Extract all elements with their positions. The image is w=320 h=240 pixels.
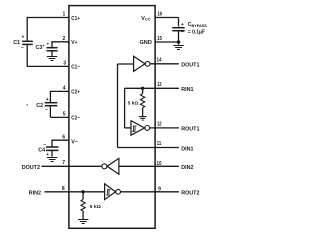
resistor R1 bottom lead [142, 108, 144, 116]
wire pin16 VCC [155, 17, 178, 19]
svg-text:4: 4 [63, 86, 66, 92]
svg-text:DIN2: DIN2 [181, 165, 193, 171]
wire C4 bottom lead [51, 150, 53, 156]
svg-text:9: 9 [158, 186, 161, 192]
capacitor C2 [45, 103, 58, 106]
resistor R1 5k lead [142, 88, 144, 93]
IC body U1 [69, 6, 155, 229]
svg-text:5 kΩ: 5 kΩ [90, 204, 101, 210]
node RIN2 junction [81, 190, 84, 193]
svg-text:+: + [46, 42, 49, 47]
ground R2 [78, 220, 88, 224]
wire pin5 C2- [50, 116, 69, 118]
wire CBYPASS bottom lead [178, 31, 180, 45]
svg-text:GND: GND [139, 40, 151, 46]
svg-text:+: + [22, 35, 25, 41]
resistor R1 5k zigzag [141, 94, 145, 108]
wire ROUT2 row [121, 191, 179, 193]
capacitor CBYPASS [172, 28, 184, 31]
svg-text:−: − [181, 30, 184, 36]
svg-text:= 0.1µF: = 0.1µF [188, 29, 205, 35]
wire ROUT1 out [150, 127, 179, 129]
svg-text:5 kΩ: 5 kΩ [128, 101, 139, 107]
svg-text:8: 8 [62, 186, 65, 192]
svg-text:−: − [21, 45, 24, 51]
svg-text:14: 14 [157, 58, 162, 64]
svg-text:12: 12 [157, 122, 162, 128]
svg-text:−: − [45, 107, 48, 113]
ground C3 [47, 57, 57, 61]
wire pin4 C2+ [50, 90, 69, 92]
svg-text:C2−: C2− [71, 116, 80, 122]
svg-text:7: 7 [62, 160, 65, 166]
svg-text:V−: V− [71, 140, 78, 146]
wire DOUT1 out [150, 63, 179, 65]
svg-text:CBYPASS: CBYPASS [188, 22, 208, 28]
svg-text:RIN1: RIN1 [181, 87, 193, 93]
capacitor C3 [47, 48, 58, 51]
wire pin6 V- [52, 139, 69, 141]
wire DIN1 row [118, 147, 179, 149]
wire DIN1 riser [117, 64, 119, 148]
svg-text:ROUT2: ROUT2 [181, 191, 199, 197]
wire RIN1 row [125, 87, 179, 89]
wire RIN1 branch riser [124, 88, 126, 128]
wire C1 top lead [26, 17, 28, 41]
svg-text:+: + [46, 97, 49, 103]
svg-text:13: 13 [157, 82, 162, 88]
svg-text:DIN1: DIN1 [181, 146, 193, 152]
svg-text:ROUT1: ROUT1 [181, 127, 199, 133]
svg-text:−: − [43, 142, 46, 148]
wire pin2 V+ [52, 41, 69, 43]
bubble U2B output [116, 189, 121, 194]
ground C4 [47, 158, 57, 162]
wire C3 top lead [51, 41, 53, 47]
svg-text:V+: V+ [71, 40, 78, 46]
svg-text:16: 16 [157, 11, 162, 17]
wire C4 top lead [51, 140, 53, 147]
svg-text:+: + [46, 152, 49, 158]
wire CBYPASS top lead [178, 18, 180, 27]
capacitor C4 [46, 147, 59, 150]
inverter U1A DIN1->DOUT1 [134, 56, 145, 71]
node RIN1 junction [141, 87, 144, 90]
svg-text:15: 15 [157, 36, 162, 42]
wire C2 top lead [49, 91, 51, 103]
svg-text:10: 10 [157, 161, 162, 167]
bubble U2A output [102, 164, 107, 169]
svg-text:2: 2 [63, 36, 66, 42]
svg-text:1: 1 [63, 12, 66, 18]
svg-text:C3: C3 [35, 45, 42, 51]
svg-text:11: 11 [157, 141, 162, 147]
ground CBYPASS [173, 46, 183, 50]
wire C3 bottom lead [51, 51, 53, 56]
svg-text:C1+: C1+ [71, 16, 80, 22]
wire C1 bottom lead [26, 44, 28, 66]
wire U1A input [118, 63, 134, 65]
svg-text:C4: C4 [38, 148, 45, 154]
ground R1 [139, 117, 147, 121]
svg-text:DOUT1: DOUT1 [181, 63, 199, 69]
schmitt symbol U2B [106, 189, 111, 195]
wire DIN2 row [119, 165, 179, 167]
svg-text:3: 3 [63, 61, 66, 67]
svg-text:VCC: VCC [141, 16, 151, 22]
wire pin1 C1+ [27, 17, 69, 19]
svg-text:C2+: C2+ [71, 90, 80, 96]
inverter U2A DIN2->DOUT2 [107, 158, 119, 174]
svg-text:6: 6 [62, 134, 65, 140]
bubble U1B output [145, 126, 150, 131]
resistor R2 bottom lead [82, 211, 84, 219]
inverter U2B RIN2->ROUT2 [105, 184, 116, 200]
svg-text:RIN2: RIN2 [29, 191, 41, 197]
wire pin15 GND [155, 41, 178, 43]
svg-text:DOUT2: DOUT2 [22, 165, 40, 171]
svg-text:C1−: C1− [71, 65, 80, 71]
svg-text:5: 5 [63, 112, 66, 118]
stray dot [27, 104, 28, 105]
inverter U1B RIN1->ROUT1 [131, 121, 145, 136]
svg-text:+: + [43, 44, 45, 48]
wire pin7 DOUT2 row [42, 165, 102, 167]
wire pin8 RIN2 row [45, 191, 105, 193]
capacitor C1 [22, 41, 33, 44]
svg-text:C1: C1 [13, 40, 20, 46]
resistor R2 5k zigzag [81, 199, 85, 211]
bubble U1A output [145, 61, 150, 66]
wire pin3 C1- [27, 65, 69, 67]
schmitt symbol U1B [132, 126, 137, 132]
wire C2 bottom lead [49, 106, 51, 118]
svg-text:C2: C2 [36, 103, 43, 109]
svg-text:+: + [181, 22, 184, 28]
wire U1B input [125, 127, 131, 129]
resistor R2 5k lead [82, 192, 84, 200]
node VCC/GND junction [177, 40, 181, 44]
